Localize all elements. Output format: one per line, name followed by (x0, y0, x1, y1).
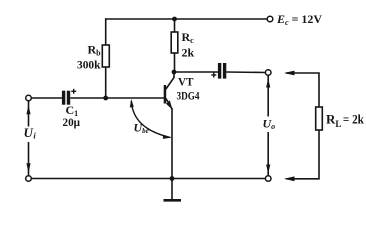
Ube arc (131, 101, 170, 138)
Ube arc arrow top (130, 99, 134, 108)
wire capacitor C2 to output terminal (226, 71, 265, 74)
label Uo (261, 117, 277, 133)
wire bottom rail (31, 178, 265, 180)
Ui arrow up (26, 105, 30, 114)
RL bottom arrow (284, 176, 295, 181)
svg-text:300k: 300k (77, 58, 101, 72)
label C2 plus sign (211, 73, 216, 78)
svg-text:RL= 2k: RL= 2k (326, 112, 365, 130)
node emitter ground junction (170, 176, 175, 181)
wire Rc top from rail (174, 19, 176, 32)
node input terminal (26, 95, 32, 101)
transistor Q1 collector lead (166, 72, 174, 90)
wire collector node to capacitor C2 (174, 71, 218, 73)
Uo arrow up (266, 78, 270, 87)
wire RL bottom branch (286, 130, 319, 179)
node base junction (103, 96, 108, 101)
svg-text:3DG4: 3DG4 (177, 89, 200, 103)
svg-text:2k: 2k (182, 46, 195, 60)
svg-text:VT: VT (178, 75, 194, 89)
transistor Q1 emitter arrow (166, 100, 173, 109)
node Rc top junction (172, 17, 177, 22)
wire emitter down to ground rail (171, 108, 173, 179)
label C1 plus sign (71, 89, 76, 94)
Ui arrow down (26, 163, 30, 173)
node output bottom terminal (265, 176, 271, 182)
wire Rc bottom to collector node (174, 53, 176, 72)
resistor Rc (171, 32, 178, 53)
wire Rb bottom to base node (105, 67, 107, 98)
wire RL top branch (286, 73, 319, 107)
svg-text:Ube: Ube (134, 121, 149, 136)
wire top supply rail (106, 18, 268, 20)
transistor Q1 base bar (164, 85, 167, 104)
Uo arrow down (266, 165, 270, 174)
resistor RL (316, 107, 323, 130)
node Ec supply terminal (267, 16, 273, 22)
svg-text:20μ: 20μ (63, 115, 81, 129)
capacitor C2 output coupling (218, 63, 226, 79)
ground (164, 199, 182, 202)
wire Rb top (corner from rail down to Rb) (105, 18, 107, 45)
label Ui (22, 127, 37, 143)
wire capacitor C1 to transistor base (70, 97, 164, 99)
capacitor C1 (62, 91, 70, 105)
svg-text:Rc: Rc (182, 30, 195, 45)
wire Uo vertical between output terminals (267, 75, 269, 175)
wire input terminal to capacitor C1 (31, 97, 63, 99)
wire input left vertical (28, 101, 30, 176)
svg-text:Rb: Rb (88, 43, 102, 58)
RL top arrow (284, 71, 295, 76)
wire ground stub (171, 179, 173, 200)
resistor Rb (102, 45, 109, 67)
Ube arc arrow bottom (163, 135, 172, 139)
transistor Q1 emitter lead (166, 99, 172, 110)
svg-text:Ec= 12V: Ec= 12V (276, 12, 322, 27)
node output top terminal (265, 70, 271, 76)
node input bottom terminal (26, 176, 32, 182)
node collector junction (172, 70, 177, 75)
